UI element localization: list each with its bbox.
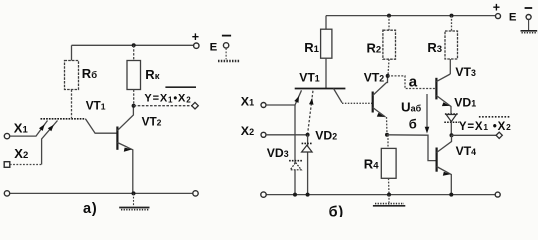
label VD1 (454, 95, 476, 109)
wire: X2 to VT1 emitter 2 (b) (266, 90, 314, 135)
label: b) caption (329, 204, 344, 220)
svg-text:Rб: Rб (82, 66, 97, 81)
terminal: input X2 (a) (4, 146, 28, 167)
transistor VT3 base bar (435, 78, 437, 100)
label R1 (304, 40, 319, 55)
wire: VT4 collector to output node (437, 135, 452, 152)
resistor R2 (383, 16, 396, 76)
wire: output to terminal (a) (134, 105, 192, 107)
resistor R1 (321, 16, 332, 89)
node: rail junction above R2 (387, 14, 391, 18)
terminal: bottom left (b) (261, 192, 266, 197)
diode VD2 (302, 143, 313, 152)
label VD3 (267, 146, 289, 160)
terminal: + supply terminal (a) (192, 30, 199, 49)
label Rk value (145, 67, 159, 82)
resistor R6 (Rb) (65, 45, 79, 118)
wire: node b to VT4 base (387, 135, 436, 161)
svg-text:X2: X2 (14, 146, 28, 161)
diode VD3 (289, 161, 303, 170)
label U_ab (401, 99, 422, 114)
wire: output to terminal (b) (452, 134, 497, 136)
svg-text:+: + (493, 1, 500, 15)
svg-text:a: a (409, 73, 418, 90)
label VT1 (a) (86, 99, 106, 113)
node: VD2 at rail (306, 193, 310, 197)
label: a) caption (83, 201, 98, 217)
terminal: + supply terminal (b) (493, 1, 501, 19)
wire: node a to VT3 base (388, 76, 437, 89)
resistor R4 (381, 135, 396, 195)
node: rail junction above R3 (450, 14, 454, 18)
power source E symbol (b) (509, 8, 532, 30)
terminal: bottom right (a) (193, 191, 198, 196)
svg-text:Y=X1•X2: Y=X1•X2 (144, 92, 191, 104)
node: ground junction (a) (132, 191, 136, 195)
svg-text:+: + (192, 30, 199, 44)
svg-text:R4: R4 (364, 156, 379, 171)
transistor VT2 (b) base bar (372, 92, 374, 113)
svg-text:R1: R1 (304, 40, 319, 55)
svg-text:E: E (509, 11, 517, 23)
label node b (409, 116, 417, 131)
svg-text:а): а) (83, 201, 98, 217)
resistor Rk (127, 45, 141, 105)
node: X2 / VD2 junction (306, 133, 310, 137)
ground: E source ground (b) (521, 31, 538, 33)
svg-text:VT1: VT1 (86, 99, 106, 113)
terminal: input X1 (b) (241, 95, 266, 109)
label VT1 (b) (299, 71, 320, 85)
wire: VT2 emitter to node b (373, 108, 387, 135)
resistor R3 (445, 16, 458, 74)
label VT4 (456, 144, 477, 158)
wire: VT2 emitter to ground rail (a) (117, 143, 132, 194)
transistor VT4 base bar (436, 148, 438, 172)
label R4 (364, 156, 379, 171)
label node a (409, 73, 418, 90)
power source E symbol (a) (210, 36, 232, 60)
wire: X1 to VT1 emitter 1 (b) (266, 90, 302, 105)
node: output node Y (a) (132, 104, 136, 108)
svg-text:VT1: VT1 (299, 71, 320, 85)
wire: VT4 emitter to ground rail (437, 167, 452, 195)
label R3 (427, 40, 442, 55)
terminal: bottom right (b) (495, 192, 500, 197)
node: VD3 at rail (293, 193, 297, 197)
label R2 (367, 41, 382, 56)
terminal: bottom left (a) (4, 191, 9, 196)
ground: main ground symbol (a) (119, 193, 149, 209)
node: R4 at rail (387, 193, 391, 197)
svg-text:Uаб: Uаб (401, 99, 422, 114)
svg-text:Rк: Rк (145, 67, 159, 82)
label VT2 (a) (142, 115, 162, 129)
svg-text:R3: R3 (427, 40, 442, 55)
svg-text:VD1: VD1 (454, 95, 476, 109)
svg-text:X1: X1 (14, 121, 29, 136)
svg-text:Y=X1 •X2: Y=X1 •X2 (459, 121, 512, 133)
wire: VT2 collector to output node (a) (117, 106, 133, 131)
node a (386, 74, 390, 78)
wire: VT1 collector to VT2 base (a) (85, 119, 117, 133)
ground: main ground symbol (b) (373, 195, 405, 206)
terminal: input X2 (b) (241, 124, 266, 138)
label VT3 (455, 65, 476, 79)
wire: X2 to VT1 emitter 2 (a) (10, 121, 58, 165)
svg-text:VD3: VD3 (267, 146, 289, 160)
voltage arrow U_ab (425, 94, 430, 134)
label: Y = NOT(X1·X2) (b) (459, 117, 512, 133)
wire: top supply rail (a) (72, 44, 195, 46)
svg-text:R2: R2 (367, 41, 382, 56)
transistor VT1 (b) multi-emitter, base bar (295, 88, 346, 90)
wire: R3 to VT3 collector (436, 74, 450, 82)
label Rb value (82, 66, 97, 81)
svg-text:б: б (409, 116, 417, 131)
wire: VT2 collector to node a (373, 76, 388, 96)
svg-text:E: E (210, 41, 218, 53)
wire: bottom ground rail (a) (9, 192, 193, 194)
diode VD2 branch wire (307, 135, 309, 195)
node: output node Y (b) (450, 133, 454, 137)
node: junction of Rk with top rail (a) (132, 43, 136, 47)
wire: VT1 collector to VT2 base (b) (334, 89, 373, 104)
svg-text:VT2: VT2 (142, 115, 162, 129)
terminal: input X1 (a) (4, 121, 28, 139)
diode VD3 branch wire (294, 105, 296, 195)
svg-text:б): б) (329, 204, 344, 217)
wire: top supply rail (b) (326, 15, 496, 17)
wire: X1 to VT1 emitter 1 (a) (10, 121, 48, 137)
transistor VT2 (a) base bar (116, 127, 118, 150)
svg-text:X1: X1 (241, 95, 254, 109)
node b (385, 133, 389, 137)
label: Y = NOT(X1·X2) (a) (144, 87, 196, 104)
svg-text:VD2: VD2 (315, 129, 337, 143)
node: VT4 emitter at rail (449, 193, 453, 197)
svg-text:VT4: VT4 (456, 144, 477, 158)
label VT2 (b) (364, 71, 385, 85)
svg-text:VT2: VT2 (364, 71, 385, 85)
svg-text:VT3: VT3 (455, 65, 476, 79)
wire: bottom ground rail (b) (266, 194, 496, 196)
terminal: output diamond (b) (496, 132, 502, 138)
svg-text:X2: X2 (241, 124, 254, 138)
wire: VT3 emitter to VD1 (436, 96, 451, 114)
diode VD1 (444, 114, 459, 135)
terminal: output diamond (a) (192, 102, 199, 109)
transistor VT1 (a) multi-emitter, base bar (41, 118, 86, 120)
ground: E source ground (a) (218, 60, 240, 63)
label VD2 (315, 129, 337, 143)
